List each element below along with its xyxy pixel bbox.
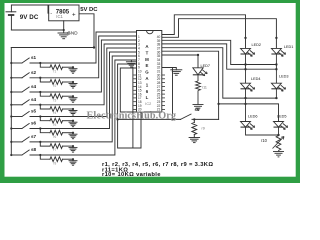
LED LED2 [241,48,255,56]
wire 7805 to ground [63,21,65,33]
wire s6 to chip pin 6 [30,52,136,129]
svg-text:s9: s9 [195,107,201,112]
svg-text:r1: r1 [54,69,57,73]
ground at chip right [171,69,182,71]
resistor r4 pulldown [40,105,50,109]
wire 5V DC rail [11,14,94,48]
wire pin40 to LED2 anode [162,15,246,49]
ground for r11 [193,104,204,106]
LED LED7 [193,68,207,76]
resistor r9 [193,119,195,122]
LED LED5 [274,122,288,130]
svg-text:LED2: LED2 [252,43,262,47]
LED LED4 [241,83,255,91]
wire LED2 cathode to row1 line and LED4 [245,54,247,83]
wire s7 to chip pin 7 [30,56,136,142]
wire s4 to chip pin 3 [30,40,136,92]
resistor r11 [197,75,199,81]
wire LED5 cathode to r10 [278,127,280,135]
svg-text:r10= 10KΩ variable: r10= 10KΩ variable [102,172,161,178]
r10 variable arrow [273,137,285,149]
battery 9V DC [11,5,48,13]
svg-text:s5: s5 [31,109,37,114]
voltage regulator IC1 7805 [49,5,79,21]
wire s5 to chip pin 5 [30,48,136,117]
ground for r3 [69,97,77,99]
svg-text:+: + [72,12,76,19]
svg-text:r5: r5 [54,123,57,127]
wire pin38 to row1 cathode line [162,40,276,64]
wire pin34 to LED7 [162,55,198,68]
svg-text:ElectronicsHub.Org: ElectronicsHub.Org [87,111,177,122]
svg-text:E: E [146,63,149,68]
wire LED3 cathode down to row2 line [275,89,277,98]
svg-text:s4: s4 [31,84,37,89]
svg-text:LED4: LED4 [251,77,261,81]
wire pin36 to row2 cathode line [162,48,276,98]
ground for r8 [69,160,77,162]
svg-text:s4: s4 [31,97,37,102]
resistor r3 pulldown [40,92,50,96]
wire pin37 to row2 anode line [162,44,276,69]
svg-text:r6: r6 [54,135,57,139]
svg-text:LED1: LED1 [284,45,294,49]
ground for r2 [69,83,77,85]
LED LED3 [271,83,285,91]
svg-text:s2: s2 [31,70,37,75]
wire s2 to chip pin 2 [30,36,136,78]
svg-text:LED7: LED7 [201,64,211,68]
svg-text:T: T [146,50,149,55]
svg-text:LED6: LED6 [248,114,258,118]
ground for r9 [189,137,200,139]
svg-text:L: L [146,95,149,100]
svg-text:IC2: IC2 [145,102,151,106]
wire s8 to chip pin 8 [30,60,136,155]
wire LED1 cathode to row1 line and LED3 [275,54,277,83]
wire LED4 cathode down to row2 line and LED6 [245,89,247,122]
LED LED1 [271,48,285,56]
svg-text:GND: GND [67,30,78,35]
resistor r1 pulldown [40,63,50,67]
switch s4 row [11,104,22,106]
resistor r5 pulldown [40,117,50,121]
svg-text:s1: s1 [31,55,37,60]
svg-text:M: M [145,57,149,62]
LED LED6 [241,122,255,130]
wire chip pin9 down and under chip [118,64,141,148]
switch s4 row [11,91,22,93]
svg-text:IC1: IC1 [56,14,63,19]
switch s9 [181,114,192,119]
svg-text:r11: r11 [202,86,207,90]
microcontroller IC2 ATMEGA16L [137,31,162,113]
svg-text:s7: s7 [31,134,37,139]
ground under 7805 [58,32,70,34]
svg-text:LED3: LED3 [279,74,289,78]
switch s1 row [11,62,22,64]
ground for r1 [69,68,77,70]
wire s1 to chip pin 1 [30,32,136,63]
wire left 5V bus [10,48,12,156]
green page border frame [0,0,300,183]
resistor r2 pulldown [40,78,50,82]
wire from ground area down to under-chip net [132,67,134,148]
svg-text:s8: s8 [31,147,37,152]
svg-text:s6: s6 [31,121,37,126]
switch s5 row [11,116,22,118]
svg-text:r3: r3 [54,98,57,102]
wire pin39 to LED1 anode [162,19,276,49]
ground for r7 [69,147,77,149]
wire s9 feed from pin9 line [116,118,118,120]
ground under r10 [273,151,284,153]
ground for r6 [69,133,77,135]
wire pin35 to row3 anode line and s9 [162,51,219,119]
svg-text:r8: r8 [54,161,57,165]
variable resistor r10 [276,136,281,151]
svg-text:G: G [145,70,149,75]
svg-text:5V DC: 5V DC [80,7,98,13]
switch s6 row [11,128,22,130]
svg-text:r2: r2 [54,84,57,88]
ground on pin8 wire left of chip [130,60,132,62]
wire pin31 node down to s9 line [172,68,174,120]
wire battery negative to ground node [11,29,63,31]
resistor r8 pulldown [40,155,50,159]
wire LED6 cathode joins r10 [246,127,279,135]
resistor r6 pulldown [40,129,50,133]
svg-text:r9: r9 [202,127,205,131]
switch s8 row [11,154,22,156]
chip pin stubs [133,75,165,109]
ground for r5 [69,121,77,123]
svg-text:r10: r10 [261,138,268,143]
svg-text:r7: r7 [54,148,57,152]
wire s4 to chip pin 4 [30,44,136,105]
ground for r4 [69,110,77,112]
switch s7 row [11,141,22,143]
switch s2 row [11,77,22,79]
resistor r7 pulldown [40,142,50,146]
wire pin31 to ground [162,68,176,70]
svg-text:9V DC: 9V DC [20,14,39,21]
svg-text:r4: r4 [54,111,57,115]
svg-text:LED5: LED5 [277,114,287,118]
